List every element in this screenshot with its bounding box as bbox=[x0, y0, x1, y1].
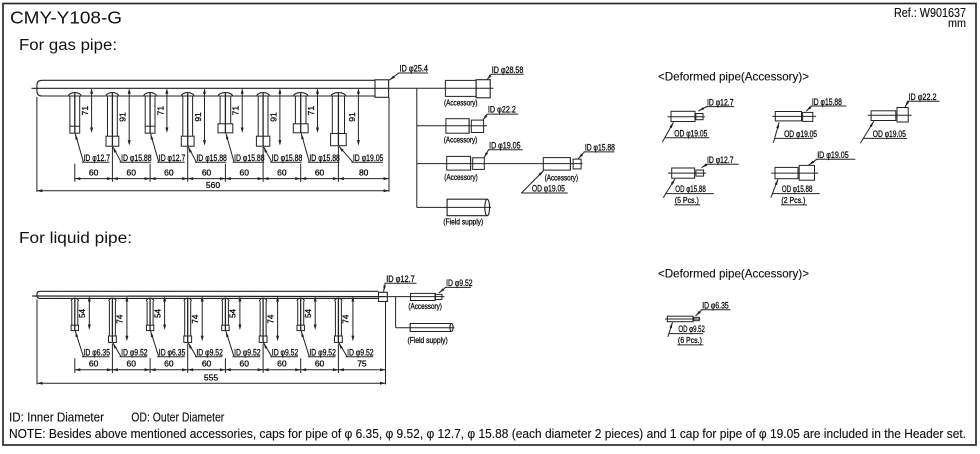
svg-text:(6 Pcs.): (6 Pcs.) bbox=[678, 335, 702, 345]
svg-text:91: 91 bbox=[347, 112, 357, 122]
gas branch 3 pipe bbox=[144, 93, 157, 134]
liquid label ID phi 9.52 branch 6 bbox=[264, 343, 299, 358]
svg-text:ID φ6.35: ID φ6.35 bbox=[84, 348, 111, 358]
svg-text:60: 60 bbox=[277, 167, 287, 177]
liquid label ID phi 6.35 branch 1 bbox=[75, 331, 110, 358]
gas deformed pipe 5 label OD phi 15.88 bbox=[771, 179, 820, 198]
liquid label ID phi 12.7 header inlet bbox=[383, 274, 416, 292]
gas dimension 91 branch 4 bbox=[193, 88, 206, 145]
svg-text:60: 60 bbox=[277, 359, 287, 369]
liquid fitting reducer body bbox=[411, 293, 442, 300]
gas label ID phi 15.88 branch 7 bbox=[301, 133, 340, 163]
svg-text:60: 60 bbox=[89, 359, 99, 369]
svg-text:ID φ12.7: ID φ12.7 bbox=[159, 153, 186, 163]
svg-text:ID φ19.05: ID φ19.05 bbox=[817, 150, 849, 160]
liquid field supply caption bbox=[408, 336, 449, 345]
svg-text:ID φ19.05: ID φ19.05 bbox=[353, 153, 384, 163]
gas fitting 1 label ID phi 28.58 bbox=[487, 65, 524, 80]
svg-text:ID φ6.35: ID φ6.35 bbox=[159, 348, 186, 358]
gas dimension 71 branch 1 bbox=[80, 88, 93, 133]
ref number W901637 bbox=[894, 6, 966, 20]
gas label ID phi 15.88 branch 6 bbox=[264, 147, 303, 163]
svg-text:560: 560 bbox=[206, 180, 220, 190]
gas deformed pipe section heading bbox=[658, 70, 809, 84]
svg-text:CMY-Y108-G: CMY-Y108-G bbox=[10, 8, 122, 28]
liquid label ID phi 9.52 branch 8 bbox=[339, 343, 374, 358]
svg-text:74: 74 bbox=[342, 314, 351, 323]
svg-text:OD φ9.52: OD φ9.52 bbox=[678, 324, 705, 334]
liquid branch 2 pipe bbox=[109, 298, 117, 342]
svg-text:74: 74 bbox=[116, 314, 125, 323]
gas label ID phi 12.7 branch 3 bbox=[151, 134, 186, 163]
svg-text:ID φ15.88: ID φ15.88 bbox=[309, 153, 340, 163]
liquid dimension 74 branch 8 bbox=[342, 296, 355, 341]
svg-text:ID φ15.88: ID φ15.88 bbox=[196, 153, 227, 163]
gas trunk wire row1 bbox=[389, 87, 494, 89]
liquid spacing dimension row 60/75 bbox=[37, 299, 386, 384]
gas deformed pipe 2 body bbox=[772, 112, 816, 122]
liquid dimension 74 branch 2 bbox=[116, 296, 129, 341]
liquid branch 1 pipe bbox=[71, 298, 78, 330]
svg-text:(Accessory): (Accessory) bbox=[444, 173, 478, 182]
svg-text:ID φ9.52: ID φ9.52 bbox=[121, 348, 148, 358]
svg-text:54: 54 bbox=[304, 309, 313, 318]
gas field supply caption bbox=[443, 218, 483, 227]
gas deformed pipe 1 label ID phi 12.7 bbox=[698, 97, 734, 111]
gas fitting 4 label OD phi 19.05 bbox=[521, 171, 567, 194]
gas deformed pipe 1 label OD phi 19.05 bbox=[662, 122, 709, 142]
gas field supply pipe bbox=[447, 199, 490, 216]
gas fitting 3 reducer body bbox=[447, 156, 485, 170]
svg-text:54: 54 bbox=[229, 309, 238, 318]
svg-text:ID φ15.88: ID φ15.88 bbox=[272, 153, 303, 163]
liquid deformed pipe 1 label ID phi 6.35 bbox=[696, 301, 731, 316]
gas label ID phi 19.05 branch 8 bbox=[339, 146, 384, 163]
gas branch 8 pipe bbox=[331, 93, 347, 146]
svg-text:60: 60 bbox=[202, 167, 212, 177]
svg-text:OD φ15.88: OD φ15.88 bbox=[675, 184, 706, 194]
liquid field supply pipe bbox=[410, 324, 453, 332]
svg-text:ID φ22.2: ID φ22.2 bbox=[488, 105, 516, 115]
svg-text:ID φ6.35: ID φ6.35 bbox=[702, 301, 729, 311]
svg-text:(Field supply): (Field supply) bbox=[408, 336, 449, 345]
liquid deformed pipe section heading bbox=[658, 266, 809, 280]
gas branch 4 pipe bbox=[181, 93, 194, 147]
gas deformed pipe 4 label ID phi 12.7 bbox=[702, 155, 739, 168]
svg-text:91: 91 bbox=[193, 112, 203, 122]
liquid label ID phi 9.52 branch 7 bbox=[301, 331, 336, 358]
liquid dimension 54 branch 7 bbox=[304, 296, 317, 330]
liquid label ID phi 6.35 branch 3 bbox=[151, 331, 186, 358]
liquid header centerline bbox=[32, 295, 385, 298]
liquid deformed pipe 1 quantity 6 Pcs. bbox=[677, 335, 703, 345]
liquid deformed pipe 1 label OD phi 9.52 bbox=[668, 322, 705, 337]
gas fitting 4 caption Accessory bbox=[545, 174, 579, 183]
svg-text:60: 60 bbox=[164, 167, 174, 177]
svg-text:60: 60 bbox=[127, 167, 137, 177]
svg-text:60: 60 bbox=[315, 167, 325, 177]
svg-text:ID φ9.52: ID φ9.52 bbox=[347, 348, 374, 358]
svg-text:OD φ19.05: OD φ19.05 bbox=[674, 128, 707, 138]
svg-text:(Accessory): (Accessory) bbox=[545, 174, 579, 183]
svg-text:(Accessory): (Accessory) bbox=[444, 99, 478, 108]
gas fitting 3 caption Accessory bbox=[444, 173, 478, 182]
liquid fitting caption Accessory bbox=[408, 302, 442, 311]
svg-text:OD φ19.05: OD φ19.05 bbox=[784, 129, 817, 139]
svg-text:ID φ28.58: ID φ28.58 bbox=[492, 65, 524, 75]
svg-text:For liquid pipe:: For liquid pipe: bbox=[19, 230, 132, 247]
svg-text:ID φ22.2: ID φ22.2 bbox=[909, 92, 937, 102]
gas branch 2 pipe bbox=[106, 93, 119, 147]
gas branch 7 pipe bbox=[293, 93, 308, 133]
liquid trunk wire vertical bbox=[395, 297, 397, 328]
liquid header pipe tube bbox=[37, 291, 379, 298]
gas trunk wire row4 bbox=[417, 206, 491, 208]
gas branch 6 pipe bbox=[256, 93, 269, 147]
gas dimension 71 branch 3 bbox=[155, 88, 168, 133]
svg-text:For gas pipe:: For gas pipe: bbox=[19, 37, 117, 54]
gas label ID phi 15.88 branch 5 bbox=[226, 133, 265, 163]
gas total dimension 560 bbox=[37, 180, 389, 192]
gas label ID phi 15.88 branch 4 bbox=[188, 147, 227, 163]
svg-text:71: 71 bbox=[155, 106, 165, 116]
gas trunk wire row2 bbox=[417, 125, 487, 127]
liquid dimension 74 branch 6 bbox=[266, 296, 279, 341]
gas branch 5 pipe bbox=[218, 93, 233, 133]
liquid dimension 54 branch 5 bbox=[229, 296, 242, 330]
svg-text:(2 Pcs.): (2 Pcs.) bbox=[781, 195, 805, 205]
gas deformed pipe 3 label ID phi 22.2 bbox=[905, 92, 940, 107]
gas fitting 4 label ID phi 15.88 bbox=[578, 143, 615, 159]
svg-text:mm: mm bbox=[948, 16, 966, 30]
svg-text:ID φ12.7: ID φ12.7 bbox=[386, 274, 415, 284]
svg-text:60: 60 bbox=[164, 359, 174, 369]
svg-text:71: 71 bbox=[80, 106, 90, 116]
gas trunk wire vertical bbox=[416, 88, 418, 207]
svg-text:ID φ12.7: ID φ12.7 bbox=[707, 155, 734, 165]
liquid branch 6 pipe bbox=[259, 298, 267, 342]
section label For gas pipe bbox=[19, 37, 117, 54]
svg-text:75: 75 bbox=[357, 359, 367, 369]
gas deformed pipe 1 body bbox=[668, 111, 705, 121]
gas fitting 1 caption Accessory bbox=[444, 99, 478, 108]
gas deformed pipe 4 label OD phi 15.88 bbox=[663, 179, 714, 198]
title CMY-Y108-G bbox=[10, 8, 122, 28]
gas deformed pipe 5 quantity 2 Pcs. bbox=[781, 195, 807, 205]
section label For liquid pipe bbox=[19, 230, 132, 247]
gas dimension 91 branch 6 bbox=[268, 88, 281, 145]
gas deformed pipe 4 body bbox=[668, 168, 706, 178]
liquid branch 5 pipe bbox=[222, 298, 229, 330]
liquid fitting label ID phi 9.52 bbox=[439, 278, 473, 293]
gas header centerline bbox=[32, 87, 390, 89]
liquid branch 8 pipe bbox=[335, 298, 343, 342]
gas label ID phi 15.88 branch 2 bbox=[113, 147, 152, 163]
gas fitting 1 reducer body bbox=[445, 80, 490, 98]
svg-text:ID φ9.52: ID φ9.52 bbox=[234, 348, 261, 358]
svg-text:555: 555 bbox=[204, 373, 218, 383]
svg-text:60: 60 bbox=[89, 167, 99, 177]
svg-text:71: 71 bbox=[306, 106, 316, 116]
svg-text:OD φ15.88: OD φ15.88 bbox=[782, 184, 813, 194]
svg-text:(Field supply): (Field supply) bbox=[443, 218, 483, 227]
gas branch 1 pipe bbox=[68, 93, 81, 134]
gas header pipe tube bbox=[37, 80, 375, 96]
svg-text:60: 60 bbox=[240, 167, 250, 177]
gas deformed pipe 5 label ID phi 19.05 bbox=[809, 150, 856, 165]
liquid branch 4 pipe bbox=[184, 298, 192, 342]
gas deformed pipe 2 label OD phi 19.05 bbox=[773, 122, 817, 142]
svg-text:60: 60 bbox=[127, 359, 137, 369]
liquid deformed pipe 1 body bbox=[665, 316, 700, 322]
liquid dimension 54 branch 3 bbox=[153, 296, 166, 330]
svg-text:ID φ15.88: ID φ15.88 bbox=[585, 143, 615, 153]
svg-text:ID: Inner Diameter: ID: Inner Diameter bbox=[9, 409, 105, 424]
svg-text:ID φ12.7: ID φ12.7 bbox=[707, 97, 734, 107]
svg-text:ID φ9.52: ID φ9.52 bbox=[446, 278, 473, 288]
svg-text:ID φ9.52: ID φ9.52 bbox=[309, 348, 336, 358]
svg-text:60: 60 bbox=[240, 359, 250, 369]
svg-text:60: 60 bbox=[202, 359, 212, 369]
gas deformed pipe 4 quantity 5 Pcs. bbox=[674, 195, 700, 205]
liquid label ID phi 9.52 branch 4 bbox=[188, 343, 223, 358]
svg-text:ID φ25.4: ID φ25.4 bbox=[400, 64, 429, 74]
liquid trunk wire row2 bbox=[396, 327, 455, 329]
gas dimension 71 branch 5 bbox=[231, 88, 244, 133]
legend ID OD bbox=[9, 409, 225, 424]
svg-text:OD: Outer Diameter: OD: Outer Diameter bbox=[131, 409, 225, 424]
gas fitting 2 reducer body bbox=[446, 119, 484, 134]
svg-text:ID φ9.52: ID φ9.52 bbox=[196, 348, 223, 358]
gas label ID phi 25.4 header inlet bbox=[389, 64, 428, 81]
svg-text:74: 74 bbox=[191, 314, 200, 323]
svg-text:ID φ15.88: ID φ15.88 bbox=[812, 97, 842, 107]
liquid label ID phi 9.52 branch 2 bbox=[113, 343, 148, 358]
gas trunk wire row3 bbox=[417, 163, 583, 165]
svg-text:60: 60 bbox=[315, 359, 325, 369]
svg-text:80: 80 bbox=[359, 167, 369, 177]
gas deformed pipe 3 body bbox=[868, 108, 912, 123]
gas fitting 2 caption Accessory bbox=[444, 135, 478, 144]
gas deformed pipe 5 body bbox=[771, 165, 818, 180]
gas label ID phi 12.7 branch 1 bbox=[75, 134, 110, 163]
svg-text:91: 91 bbox=[118, 112, 128, 122]
svg-text:<Deformed pipe(Accessory)>: <Deformed pipe(Accessory)> bbox=[658, 266, 809, 280]
svg-text:ID φ15.88: ID φ15.88 bbox=[234, 153, 265, 163]
liquid branch 3 pipe bbox=[146, 298, 153, 330]
liquid dimension 54 branch 1 bbox=[78, 296, 91, 330]
liquid label ID phi 9.52 branch 5 bbox=[226, 331, 261, 358]
gas dimension 91 branch 8 bbox=[347, 88, 360, 145]
svg-text:54: 54 bbox=[153, 309, 162, 318]
svg-text:71: 71 bbox=[231, 106, 241, 116]
note line bbox=[9, 426, 966, 441]
liquid total dimension 555 bbox=[37, 373, 386, 385]
svg-text:OD φ19.05: OD φ19.05 bbox=[532, 184, 565, 194]
gas fitting 3 label ID phi 19.05 bbox=[484, 140, 523, 158]
gas deformed pipe 3 label OD phi 19.05 bbox=[860, 121, 907, 143]
gas deformed pipe 2 label ID phi 15.88 bbox=[806, 97, 846, 111]
svg-text:91: 91 bbox=[268, 112, 278, 122]
svg-text:NOTE: Besides above mentioned: NOTE: Besides above mentioned accessorie… bbox=[9, 426, 966, 441]
svg-text:(5 Pcs.): (5 Pcs.) bbox=[675, 195, 699, 205]
liquid trunk wire row1 bbox=[386, 296, 445, 298]
svg-text:<Deformed pipe(Accessory)>: <Deformed pipe(Accessory)> bbox=[658, 70, 809, 84]
svg-text:(Accessory): (Accessory) bbox=[444, 135, 478, 144]
gas dimension 71 branch 7 bbox=[306, 88, 319, 133]
gas header end socket bbox=[375, 80, 389, 98]
liquid dimension 74 branch 4 bbox=[191, 296, 204, 341]
svg-text:54: 54 bbox=[78, 309, 87, 318]
svg-text:OD φ19.05: OD φ19.05 bbox=[873, 129, 906, 139]
liquid header end socket bbox=[379, 292, 388, 301]
svg-text:ID φ15.88: ID φ15.88 bbox=[121, 153, 152, 163]
svg-text:74: 74 bbox=[266, 314, 275, 323]
svg-text:(Accessory): (Accessory) bbox=[408, 302, 442, 311]
svg-text:ID φ19.05: ID φ19.05 bbox=[489, 140, 520, 150]
gas spacing dimension row 60/80 bbox=[37, 97, 389, 192]
liquid branch 7 pipe bbox=[297, 298, 304, 330]
unit label mm bbox=[948, 16, 966, 30]
gas fitting 4 reducer body bbox=[543, 158, 581, 171]
gas fitting 2 label ID phi 22.2 bbox=[483, 105, 518, 121]
svg-text:ID φ12.7: ID φ12.7 bbox=[84, 153, 111, 163]
svg-text:ID φ9.52: ID φ9.52 bbox=[272, 348, 299, 358]
gas dimension 91 branch 2 bbox=[118, 88, 131, 145]
